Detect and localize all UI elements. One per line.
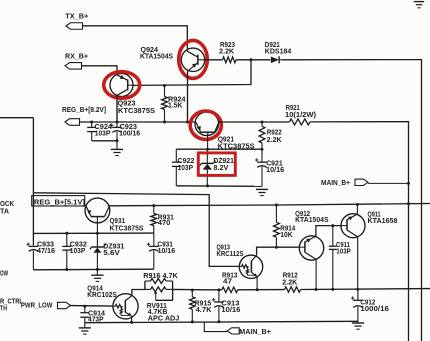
label R913 [222,272,238,279]
wire PWR_LOW to Q914 base [71,305,114,308]
node MAIN_B+ connector flag bottom [227,328,239,334]
label C931 [157,242,173,249]
wire R921 to MAIN_B+ bus [310,122,409,341]
svg-text:103P: 103P [95,131,111,138]
wire zener bottom rail [33,268,153,271]
svg-text:REG_B+[8.2V]: REG_B+[8.2V] [62,107,106,114]
label KTA1504S value Q912 [295,217,329,224]
label C911 [336,242,350,249]
node REG_B+[8.2V] label [62,107,106,114]
node RX_B+ label [65,54,88,61]
node REG_B+[8.2V] connector flag [65,119,80,126]
svg-text:KTA1504S: KTA1504S [295,217,329,224]
capacitor C923 [110,122,122,141]
svg-text:47/16: 47/16 [37,248,55,255]
variable resistor RV911 in series [145,287,173,292]
label C912 [360,299,375,306]
wire Q921 base down [206,134,208,186]
junction dot rail C913 [217,288,220,291]
wire DZ931 ground stub [96,269,98,275]
label Q931 [110,218,126,225]
junction dot bottom rail C932 [65,268,68,271]
svg-text:10/16: 10/16 [266,167,284,174]
label R912 [283,273,298,280]
transistor Q914 [113,294,138,319]
svg-text:PWR_LOW: PWR_LOW [21,302,53,309]
svg-text:Q931: Q931 [110,218,126,225]
wiper arrow RV911 [154,291,158,301]
ground top right corner [414,2,424,8]
wire left vertical bus [32,118,34,246]
label C923 [120,124,138,131]
junction dot R915 bottom [191,320,194,323]
label Q921 [218,136,235,143]
label C921 value 10/16 [266,167,284,174]
svg-text:TX_B+: TX_B+ [65,14,88,21]
node REG_B+[5.1V] label box [32,196,85,206]
transistor Q931 [84,198,110,223]
node MAIN_B+ label top [321,180,350,187]
junction dot rail R915 [191,289,194,292]
svg-text:KDS184: KDS184 [265,48,292,55]
label Q913 [217,244,231,251]
junction dot rail R931 [152,204,155,207]
ground below C921 [256,189,268,195]
capacitor C912 [351,289,363,321]
svg-text:R921: R921 [286,105,300,112]
wire REG_B+ 5.1V feed [33,193,239,267]
wire Q921 base node to R922/C921 node [176,148,262,150]
junction dot Q924 emitter at REG rail [186,121,189,124]
node REG_B+[5.1V] label [34,199,85,206]
wire left stub into left block [0,117,33,119]
label KTA1504S value [140,53,173,60]
node MAIN_B+ label bottom [239,329,270,336]
label C912 value 1000/16 [360,306,389,313]
zener diode DZ921 [200,149,216,171]
label RV911 value 4.7KB [148,309,168,316]
label C914 value 473P [88,317,104,324]
node PWR_LOW label [21,302,53,309]
label C932 value 103P [70,248,86,255]
label R922 value 2.2K [267,137,282,144]
label R912 value 2.2K [282,280,297,287]
svg-text:MAIN_B+: MAIN_B+ [239,329,270,336]
wire Q931 base down to zener rail [96,221,98,233]
junction dot rail R914 [275,204,278,207]
svg-text:REG_B+[5.1V]: REG_B+[5.1V] [34,199,85,206]
label R923 value 2.2K [219,48,234,55]
capacitor C931 [147,233,159,269]
label DZ921 value 8.2V [213,165,228,172]
zener diode DZ931 [90,233,106,269]
wire Q913 emitter down [256,277,258,290]
svg-text:103P: 103P [178,165,194,172]
svg-text:100/16: 100/16 [119,131,140,138]
junction dot rail DZ931 [96,232,99,235]
resistor R914 [274,205,280,247]
svg-text:1000/16: 1000/16 [360,306,389,313]
label Q923 [118,100,136,107]
svg-text:KTA1504S: KTA1504S [140,53,173,60]
wire Q912 collector up to Q911 base [316,226,341,237]
label C931 value 10/16 [158,248,176,255]
label R924 [168,97,186,104]
junction dot R924 bottom [163,121,166,124]
label C911 value 103P [336,248,351,255]
label C932 [70,242,87,249]
label C913 value 10/16 [221,307,240,314]
red circle annotation around Q924 [179,40,208,78]
wire Q911 collector up [356,204,358,214]
wire MAIN_B+ bottom stub [204,322,227,332]
capacitor C914 [80,306,89,328]
cut label R_CTRL [0,298,24,305]
wire R916 block right node [172,281,174,300]
resistor R923 [223,57,237,63]
junction dot rail Q911 emitter C912 [356,288,359,291]
label C924 value 103P [95,131,111,138]
svg-text:KRC102S: KRC102S [87,292,117,299]
svg-text:470: 470 [158,220,171,227]
transistor Q923 [110,74,134,98]
wire TX_B+ to Q924 collector [83,26,188,49]
svg-text:Q923: Q923 [118,100,136,107]
label R914 value 10K [280,232,293,239]
junction dot C924 top [90,121,93,124]
ground below C914 [79,328,91,334]
wire Q924 base to R923 [205,59,223,61]
transistor Q911 [341,214,365,238]
label R931 [158,215,174,222]
svg-text:1.5K: 1.5K [168,103,183,110]
wire Q921 collector to R921 [219,121,290,123]
label R914 [280,225,295,232]
wire zener top rail [33,232,153,234]
svg-text:KRC112S: KRC112S [217,251,244,258]
wire Q913 collector up to Q912 base [257,247,300,255]
transistor Q924 [181,48,204,72]
label KTA1658 value [368,218,398,225]
red circle annotation around Q923 [104,72,140,99]
svg-text:OCK: OCK [0,201,14,208]
svg-text:2.2K: 2.2K [219,48,234,55]
svg-text:KTA1658: KTA1658 [368,218,398,225]
label C933 [37,242,54,249]
wire RX_B+ to Q923 top [82,66,118,74]
wire Q912 emitter down [315,260,317,290]
label KRC102S value [87,292,117,299]
svg-text:R916 4.7K: R916 4.7K [143,273,178,280]
svg-text:R912: R912 [283,273,298,280]
junction dot rail x408 [407,202,410,205]
label R922 [267,129,282,136]
svg-text:2.2K: 2.2K [282,280,297,287]
svg-text:Q921: Q921 [218,136,235,143]
svg-text:R922: R922 [267,129,282,136]
wire supply rail from Q931 to right edge [110,204,430,206]
junction dot MAIN_B+ bus [407,182,410,185]
svg-text:10/16: 10/16 [221,307,240,314]
resistor R921 [289,119,310,125]
node MAIN_B+ connector flag top [355,179,368,185]
junction dot at R923/D921 node [250,58,253,61]
resistor R924 [162,86,168,123]
cut label OW [0,271,8,278]
svg-text:TA: TA [0,208,9,215]
wire R923 to D921 [236,59,271,61]
junction dot R922 top [261,121,264,124]
label C924 [95,124,113,131]
label C914 [88,310,105,317]
wire rail R913 to R912 [238,289,285,291]
wire D921 to right bus [282,60,422,341]
svg-text:MAIN_B+: MAIN_B+ [321,180,350,187]
cut label TH [0,306,7,313]
svg-text:APC ADJ: APC ADJ [148,315,180,322]
junction dot DZ921 bottom [206,184,209,187]
ground below DZ931 [91,275,103,281]
junction dot rail Q913 emitter [256,288,259,291]
node TX_B+ label [65,14,88,21]
svg-text:TH: TH [0,306,7,313]
label C933 value 47/16 [37,248,55,255]
node TX_B+ connector flag [66,23,83,30]
svg-text:10(1/2W): 10(1/2W) [285,112,316,119]
label R924 value 1.5K [168,103,183,110]
label KDS184 value [265,48,292,55]
resistor R913 [222,287,238,292]
svg-text:KTC3875S: KTC3875S [110,225,144,232]
svg-text:8.2V: 8.2V [213,165,228,172]
svg-text:103P: 103P [70,248,86,255]
capacitor C911 [329,226,337,290]
wire junction R923-D921 down to Q923 base wire [134,60,251,86]
svg-text:OW: OW [0,271,8,278]
wire Q911 emitter down [357,237,359,289]
label C923 value 100/16 [119,131,140,138]
junction dot C922 top [206,148,209,151]
label R931 value 470 [158,220,171,227]
resistor R922 [259,122,265,149]
ground below C924/C923 [111,141,123,156]
wire Q924 emitter down [187,72,189,123]
resistor R912 [285,287,301,292]
label R921 [286,105,300,112]
wire Q914 collector up [132,290,145,296]
junction dot rail C911 [331,288,334,291]
junction dot R914 bottom [275,246,278,249]
cut label OCK [0,201,14,208]
label RV911 [147,303,167,310]
red circle annotation around Q921 [190,111,221,139]
svg-text:RX_B+: RX_B+ [65,54,88,61]
wire REG_B+ 8.2V rail [80,121,196,123]
wire MAIN_B+ to bus [368,182,409,184]
label KTC3875S value Q921 [218,143,255,150]
label Q924 [141,47,159,54]
label R913 value 47 [223,279,232,286]
svg-text:10/16: 10/16 [158,248,176,255]
label DZ921 [213,158,234,165]
label R921 value 10(1/2W) [285,112,316,119]
resistor R916 [145,279,173,284]
junction dot Q914 emitter rail [130,321,133,324]
capacitor C922 [172,149,181,186]
ground right of C912 bottom rail [352,321,364,329]
junction dot Q923 emitter at REG rail [116,121,119,124]
wire R916 block left node [144,281,146,290]
junction dot C911 top [331,224,334,227]
label KTC3875S value Q923 [118,108,155,115]
resistor R915 [190,290,195,322]
transistor Q913 [239,255,262,278]
capacitor C913 [212,290,224,322]
label C921 [266,161,283,168]
label KRC112S value [217,251,244,258]
wire emitter rail [173,288,222,291]
junction dot rail Q912 emitter [314,288,317,291]
junction dot C921 node [261,148,264,151]
wire DZ921 bottom rail to ground [176,185,262,188]
label C913 [221,301,239,308]
label DZ931 value 5.6V [103,250,120,257]
label C922 value 103P [178,165,194,172]
label DZ931 [103,244,124,251]
wire Q923 emitter down [116,96,118,123]
label Q911 [368,212,381,219]
svg-text:47: 47 [223,279,232,286]
node PWR_LOW connector flag [58,302,71,308]
junction dot rail Q911 collector [356,203,359,206]
label Q912 [295,211,310,218]
resistor R931 [151,205,157,233]
transistor Q912 [299,236,323,260]
label C922 [178,158,195,165]
capacitor C933 [26,243,38,270]
svg-text:103P: 103P [336,248,351,255]
capacitor C924 [87,122,96,141]
label R915 value 4.7K [196,307,212,314]
label R923 [220,42,235,49]
capacitor C921 [255,149,267,186]
label D921 [265,42,280,49]
wire RV911 wiper loop [156,299,173,301]
label R916 value [143,273,178,280]
label Q914 [87,286,103,293]
svg-text:4.7K: 4.7K [196,307,212,314]
junction dot C914 top [83,305,86,308]
node RX_B+ connector flag [65,63,82,70]
cut label TA [0,208,9,215]
junction dot C923 bottom [116,139,119,142]
wire rail R912 to right edge [301,288,430,291]
svg-text:KTC3875S: KTC3875S [118,108,155,115]
junction dot rail C932 [65,232,68,235]
capacitor C932 [62,233,71,269]
transistor Q921 [195,112,219,136]
svg-text:2.2K: 2.2K [267,137,282,144]
label R915 [194,301,211,308]
junction dot R924 top [163,84,166,87]
svg-text:10K: 10K [280,232,293,239]
label KTC3875S value Q931 [110,225,144,232]
junction dot C913 bottom [217,320,220,323]
wire C924-C923 bottom [92,140,117,142]
label RV911 APC ADJ [148,315,180,322]
junction dot bottom rail DZ931 [96,268,99,271]
diode D921 [271,56,282,63]
wire bottom ground rail [85,321,358,322]
wire Q914 emitter down [131,316,133,322]
red box annotation around DZ921 [198,153,235,176]
svg-text:5.6V: 5.6V [103,250,120,257]
